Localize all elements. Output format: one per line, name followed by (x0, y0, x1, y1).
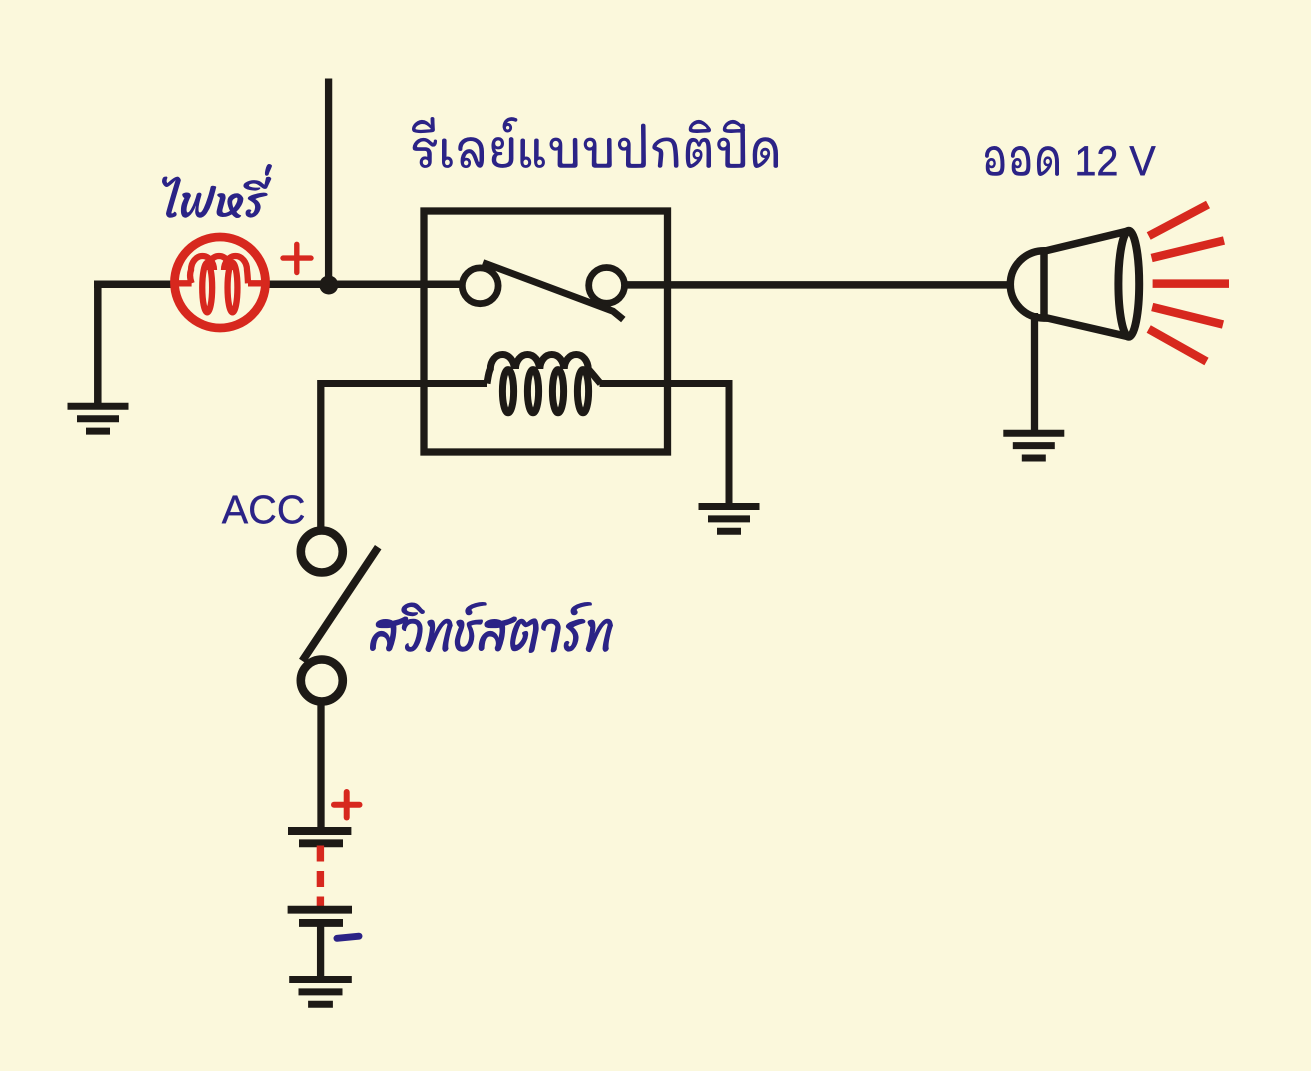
label: minus sign at battery (337, 936, 359, 938)
battery internal link (red dashed) (317, 846, 324, 912)
relay coil L1 (321, 355, 729, 413)
label: ACC (222, 495, 304, 524)
wire: battery to ground (317, 925, 324, 978)
horn cone bottom edge (1045, 318, 1129, 337)
horn sound rays (red) (1149, 205, 1229, 362)
horn BZ1: dome (1010, 251, 1044, 318)
wire: right contact to horn (625, 281, 1010, 289)
switch S1 bottom contact (301, 660, 343, 702)
wire: switch to battery (317, 705, 324, 827)
label: plus sign at lamp (283, 244, 311, 272)
battery BT1 cell2 short plate (299, 919, 343, 927)
switch S1 top contact (301, 531, 343, 573)
ground: left (68, 403, 129, 410)
wire: lamp to relay box (through left contact) (268, 281, 462, 289)
wire: coil to relay ground (726, 380, 733, 507)
label: relay title (Thai) (412, 117, 778, 168)
node: junction dot (319, 276, 338, 295)
battery BT1 cell2 long plate (288, 906, 352, 914)
label: horn name (Thai) (985, 146, 1059, 176)
ground: battery (289, 976, 352, 983)
battery BT1 cell1 long plate (288, 827, 351, 835)
label: plus sign at battery (334, 792, 360, 818)
battery BT1 cell1 short plate (299, 839, 343, 847)
ground: relay coil (699, 503, 760, 510)
label: switch name (Thai) (370, 602, 613, 653)
ground: horn (1003, 430, 1064, 437)
relay contact circle right (589, 268, 625, 304)
relay blade (NC contact arm) (483, 263, 623, 320)
wire: drop to left ground (94, 284, 102, 403)
wire: left stub to lamp (94, 281, 172, 289)
lamp LP1 (pilot light) red circle (175, 237, 266, 328)
relay contact circle left (462, 268, 498, 304)
wire: vertical from junction up (325, 79, 332, 285)
switch S1 blade (302, 547, 378, 661)
horn cone top edge (1045, 231, 1129, 251)
label: lamp name (Thai) (162, 164, 272, 218)
horn mouth ellipse (1118, 231, 1139, 337)
lamp LP1 filament coil (175, 256, 266, 312)
wire: coil left down to switch (317, 380, 324, 527)
horn support wire (1031, 313, 1038, 434)
relay K1: box (424, 211, 668, 452)
label: 12 V (1077, 146, 1155, 175)
